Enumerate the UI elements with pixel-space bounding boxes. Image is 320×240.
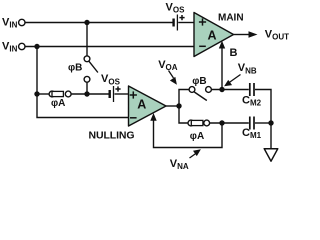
svg-text:φA: φA (190, 131, 204, 142)
svg-text:A: A (207, 29, 216, 43)
svg-text:B: B (230, 47, 238, 59)
svg-text:A: A (137, 98, 146, 112)
svg-text:φB: φB (192, 76, 206, 87)
svg-text:NULLING: NULLING (89, 130, 135, 142)
svg-text:φA: φA (51, 98, 65, 109)
svg-text:φB: φB (68, 63, 82, 74)
svg-text:MAIN: MAIN (218, 12, 244, 23)
